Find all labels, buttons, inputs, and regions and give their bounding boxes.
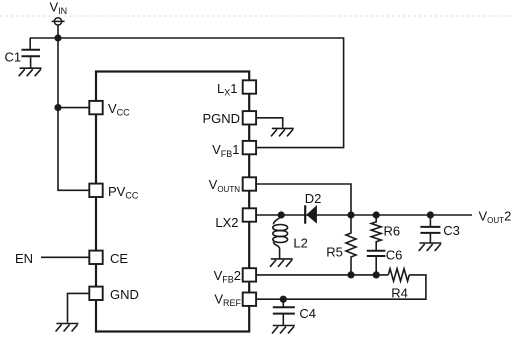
resistor R5: [346, 215, 356, 275]
svg-text:R5: R5: [326, 245, 343, 260]
IC U1 body: [96, 72, 249, 332]
pin VREF: [243, 293, 256, 306]
svg-text:R4: R4: [391, 286, 408, 301]
junction node output R5: [347, 211, 354, 218]
pin PGND: [243, 111, 256, 124]
wire VOUTN down to output node: [256, 184, 351, 215]
resistor R6: [371, 215, 381, 251]
ground for C1: [19, 68, 42, 76]
pin VOUTN: [243, 177, 256, 190]
terminal VIN: [52, 18, 65, 25]
scan artifact dotted line: [0, 15, 514, 17]
svg-text:VIN: VIN: [50, 0, 68, 16]
wire GND pin to ground: [68, 293, 90, 322]
wire branch to VCC: [58, 107, 89, 109]
junction node output R6: [373, 211, 380, 218]
svg-text:R6: R6: [384, 224, 401, 239]
ground for PGND: [271, 128, 294, 136]
capacitor C4: [273, 299, 295, 325]
pin CE: [89, 251, 102, 264]
wire VIN top rail to VFB1 loop: [30, 38, 344, 148]
resistor R4: [388, 269, 409, 281]
wire EN to CE: [41, 256, 89, 258]
junction node VFB2 C6: [373, 271, 380, 278]
svg-text:CE: CE: [110, 251, 128, 266]
svg-text:LX2: LX2: [215, 215, 238, 230]
wire VIN stem: [57, 24, 59, 38]
capacitor C6: [367, 251, 386, 275]
svg-text:GND: GND: [110, 287, 139, 302]
pin PVCC: [89, 184, 102, 197]
pin VFB1: [243, 141, 256, 154]
ground for GND pin: [56, 324, 79, 332]
junction node L2 top: [278, 211, 285, 218]
wire VFB2 line: [256, 274, 388, 276]
pin GND: [89, 287, 102, 300]
capacitor C3: [420, 215, 440, 243]
svg-text:EN: EN: [15, 251, 33, 266]
svg-text:C6: C6: [386, 248, 403, 263]
inductor L2: [273, 215, 288, 259]
wire R4 to VREF return: [256, 275, 426, 299]
pin LX2: [243, 208, 256, 221]
svg-text:L2: L2: [293, 236, 307, 251]
diode D2: [305, 205, 317, 224]
ground for L2: [270, 259, 293, 267]
svg-text:PGND: PGND: [202, 111, 240, 126]
ground for C3: [419, 243, 442, 251]
pin VFB2: [243, 268, 256, 281]
svg-text:C4: C4: [299, 306, 316, 321]
wire PGND to ground: [256, 118, 283, 128]
svg-text:VOUT2: VOUT2: [479, 209, 512, 226]
pin VCC: [89, 101, 102, 114]
ground for C4: [272, 326, 295, 334]
svg-text:C3: C3: [443, 223, 460, 238]
pin Lx1: [243, 80, 256, 93]
capacitor C1: [22, 50, 41, 68]
junction node VREF C4: [280, 296, 287, 303]
junction node VFB2 R5: [347, 271, 354, 278]
junction node VCC branch: [54, 104, 61, 111]
wire VIN rail down to PVCC: [58, 38, 89, 190]
junction node output C3: [427, 211, 434, 218]
wire C1 branch: [29, 38, 31, 50]
junction node VIN rail: [54, 34, 61, 41]
svg-text:D2: D2: [305, 191, 322, 206]
svg-text:C1: C1: [5, 50, 22, 65]
wire LX2 output line to VOUT2: [256, 214, 472, 216]
